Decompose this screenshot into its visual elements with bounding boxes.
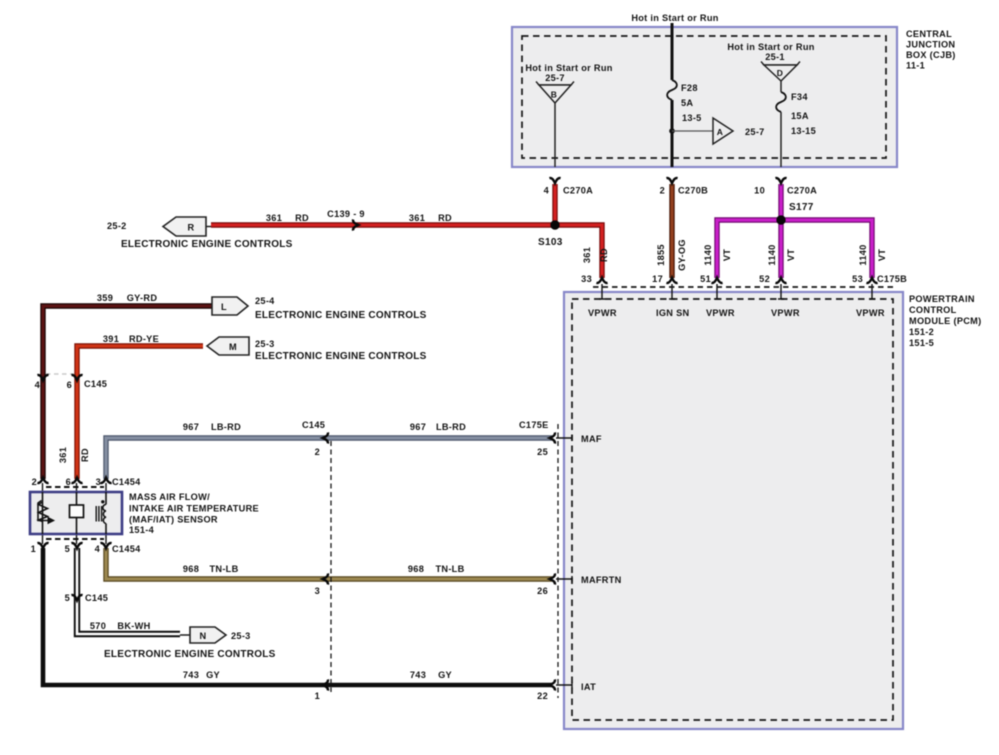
svg-text:151-2: 151-2	[909, 327, 934, 337]
svg-text:151-4: 151-4	[129, 525, 155, 535]
svg-text:968: 968	[408, 564, 424, 574]
svg-text:GY-OG: GY-OG	[677, 239, 687, 271]
svg-text:INTAKE AIR TEMPERATURE: INTAKE AIR TEMPERATURE	[129, 504, 259, 514]
svg-text:51: 51	[700, 274, 711, 284]
svg-text:ELECTRONIC ENGINE CONTROLS: ELECTRONIC ENGINE CONTROLS	[255, 351, 427, 362]
svg-text:13-15: 13-15	[791, 126, 816, 136]
svg-text:391: 391	[103, 334, 119, 344]
svg-text:967: 967	[183, 422, 199, 432]
svg-text:D: D	[777, 68, 783, 78]
svg-text:570: 570	[90, 621, 106, 631]
svg-text:25-7: 25-7	[745, 127, 765, 137]
svg-text:RD: RD	[438, 213, 452, 223]
svg-text:5A: 5A	[681, 98, 693, 108]
svg-text:CENTRAL: CENTRAL	[906, 29, 952, 39]
svg-text:BOX (CJB): BOX (CJB)	[906, 50, 956, 60]
svg-text:Hot in Start or Run: Hot in Start or Run	[727, 42, 814, 52]
svg-text:VPWR: VPWR	[588, 308, 617, 318]
svg-text:JUNCTION: JUNCTION	[906, 40, 955, 50]
svg-text:C270A: C270A	[563, 186, 593, 196]
svg-text:IAT: IAT	[581, 682, 596, 692]
svg-text:1140: 1140	[703, 244, 713, 265]
svg-text:S177: S177	[789, 202, 814, 213]
svg-text:ELECTRONIC ENGINE CONTROLS: ELECTRONIC ENGINE CONTROLS	[255, 310, 427, 321]
svg-text:5: 5	[65, 593, 70, 603]
svg-text:C270B: C270B	[678, 186, 708, 196]
svg-text:C145: C145	[84, 379, 107, 389]
svg-text:2: 2	[660, 186, 665, 196]
svg-text:F28: F28	[681, 83, 698, 93]
svg-text:RD-YE: RD-YE	[129, 334, 159, 344]
svg-text:MASS AIR FLOW/: MASS AIR FLOW/	[129, 492, 210, 502]
svg-text:33: 33	[581, 274, 592, 284]
svg-text:6: 6	[67, 380, 72, 390]
svg-text:C175E: C175E	[519, 420, 549, 430]
svg-text:GY: GY	[438, 670, 452, 680]
svg-text:1855: 1855	[656, 244, 666, 266]
svg-text:4: 4	[544, 186, 550, 196]
svg-text:1: 1	[315, 691, 320, 701]
svg-text:1140: 1140	[858, 244, 868, 265]
svg-text:1: 1	[31, 544, 36, 554]
svg-text:POWERTRAIN: POWERTRAIN	[909, 294, 975, 304]
svg-text:52: 52	[759, 274, 770, 284]
svg-text:10: 10	[754, 186, 765, 196]
svg-text:S103: S103	[538, 237, 563, 248]
svg-text:F34: F34	[791, 92, 808, 102]
svg-text:RD: RD	[599, 248, 609, 262]
svg-text:743: 743	[183, 670, 199, 680]
svg-text:53: 53	[852, 274, 863, 284]
svg-text:25: 25	[537, 447, 548, 457]
svg-text:CONTROL: CONTROL	[909, 305, 957, 315]
svg-text:Hot in Start or Run: Hot in Start or Run	[525, 63, 612, 73]
svg-text:C145: C145	[85, 593, 108, 603]
svg-text:MAF: MAF	[581, 434, 602, 444]
svg-text:TN-LB: TN-LB	[209, 564, 238, 574]
svg-text:B: B	[551, 90, 557, 100]
svg-text:4: 4	[35, 380, 41, 390]
svg-text:C139 - 9: C139 - 9	[327, 209, 365, 219]
svg-text:BK-WH: BK-WH	[117, 621, 150, 631]
svg-text:RD: RD	[295, 213, 309, 223]
svg-text:C1454: C1454	[112, 544, 141, 554]
svg-text:361: 361	[409, 213, 425, 223]
svg-text:25-7: 25-7	[545, 73, 565, 83]
svg-text:LB-RD: LB-RD	[436, 422, 466, 432]
svg-text:C1454: C1454	[112, 477, 141, 487]
svg-text:3: 3	[96, 477, 101, 487]
svg-text:361: 361	[58, 447, 68, 463]
svg-text:17: 17	[652, 274, 663, 284]
svg-text:2: 2	[315, 447, 320, 457]
svg-text:3: 3	[315, 586, 320, 596]
svg-text:(MAF/IAT) SENSOR: (MAF/IAT) SENSOR	[129, 515, 218, 525]
svg-text:25-2: 25-2	[107, 221, 127, 231]
svg-text:11-1: 11-1	[906, 61, 925, 71]
svg-text:GY-RD: GY-RD	[127, 293, 158, 303]
svg-text:151-5: 151-5	[909, 338, 934, 348]
svg-text:RD: RD	[80, 448, 90, 462]
svg-text:C175B: C175B	[877, 274, 907, 284]
svg-text:967: 967	[410, 422, 426, 432]
svg-text:N: N	[200, 631, 207, 641]
svg-text:743: 743	[410, 670, 426, 680]
svg-text:LB-RD: LB-RD	[211, 422, 241, 432]
svg-text:VPWR: VPWR	[856, 308, 885, 318]
svg-text:R: R	[188, 223, 195, 233]
svg-text:VPWR: VPWR	[771, 308, 800, 318]
svg-text:C145: C145	[302, 420, 325, 430]
svg-text:L: L	[221, 302, 227, 312]
svg-text:5: 5	[65, 544, 70, 554]
svg-text:1140: 1140	[767, 244, 777, 265]
svg-text:4: 4	[95, 544, 101, 554]
svg-text:361: 361	[582, 247, 592, 263]
svg-text:22: 22	[537, 691, 548, 701]
svg-text:VT: VT	[786, 249, 796, 261]
svg-text:Hot in Start or Run: Hot in Start or Run	[631, 13, 718, 23]
svg-text:361: 361	[266, 213, 282, 223]
svg-text:IGN SN: IGN SN	[656, 308, 690, 318]
svg-text:A: A	[717, 127, 723, 137]
svg-text:359: 359	[97, 293, 113, 303]
svg-text:25-4: 25-4	[255, 296, 275, 306]
svg-text:ELECTRONIC ENGINE CONTROLS: ELECTRONIC ENGINE CONTROLS	[121, 239, 293, 250]
svg-text:13-5: 13-5	[682, 113, 702, 123]
svg-text:VPWR: VPWR	[706, 308, 735, 318]
svg-text:VT: VT	[722, 249, 732, 261]
svg-text:M: M	[229, 342, 237, 352]
svg-text:6: 6	[66, 477, 71, 487]
svg-text:15A: 15A	[791, 111, 809, 121]
svg-text:MAFRTN: MAFRTN	[581, 575, 622, 585]
svg-text:25-3: 25-3	[231, 631, 251, 641]
svg-text:VT: VT	[877, 249, 887, 261]
svg-text:968: 968	[183, 564, 199, 574]
svg-text:GY: GY	[206, 670, 220, 680]
svg-text:25-1: 25-1	[765, 52, 785, 62]
svg-text:26: 26	[537, 586, 548, 596]
svg-text:C270A: C270A	[787, 186, 817, 196]
svg-text:2: 2	[32, 477, 37, 487]
svg-text:TN-LB: TN-LB	[435, 564, 464, 574]
svg-text:25-3: 25-3	[255, 339, 275, 349]
svg-text:ELECTRONIC ENGINE CONTROLS: ELECTRONIC ENGINE CONTROLS	[104, 649, 276, 660]
svg-text:MODULE (PCM): MODULE (PCM)	[909, 316, 982, 326]
